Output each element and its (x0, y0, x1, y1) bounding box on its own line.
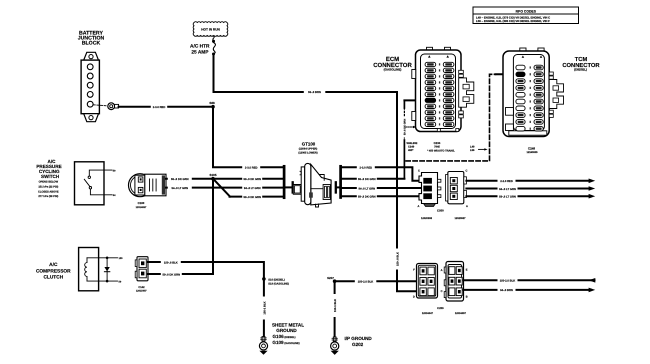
svg-text:150-2.0 BLK: 150-2.0 BLK (358, 281, 373, 284)
svg-text:94-.8 LT GRN: 94-.8 LT GRN (358, 187, 375, 190)
svg-text:59: 59 (429, 99, 433, 103)
svg-text:94-.8 LT GRN: 94-.8 LT GRN (244, 187, 261, 190)
svg-text:2-2.0 RED: 2-2.0 RED (500, 180, 513, 183)
svg-text:C500: C500 (437, 209, 444, 213)
svg-text:12020537: 12020537 (454, 217, 466, 220)
I/P ground symbol G202 (331, 337, 339, 350)
svg-text:C234: C234 (434, 141, 441, 145)
svg-text:CLUTCH: CLUTCH (43, 275, 63, 281)
svg-text:A: A (466, 205, 468, 208)
svg-text:12015407: 12015407 (136, 289, 147, 292)
svg-text:(12064 UPPER): (12064 UPPER) (299, 148, 318, 151)
diagonal from S105 to row 4 (214, 179, 230, 196)
TCM pins (516, 65, 543, 131)
svg-text:L56: L56 (470, 149, 475, 152)
svg-text:59: 59 (519, 72, 523, 76)
svg-text:150: 150 (119, 257, 124, 260)
right collector bar (339, 166, 342, 197)
row 4 wire 59 DK GRN (230, 196, 284, 198)
svg-text:(DIESEL): (DIESEL) (574, 68, 587, 72)
wire bus down from S88, RED feed row 1 (213, 108, 283, 168)
left collector bar (283, 166, 286, 197)
svg-text:94-.8 LT GRN: 94-.8 LT GRN (171, 187, 188, 190)
C500 output wires with arrows (466, 180, 591, 182)
svg-text:GROUND: GROUND (276, 328, 297, 333)
wire S207 down to IP ground (334, 283, 336, 341)
svg-text:59-.8 LT GRN: 59-.8 LT GRN (499, 196, 516, 199)
svg-text:G202: G202 (352, 342, 364, 347)
svg-text:7945: 7945 (434, 146, 440, 149)
battery junction block label (78, 30, 105, 46)
wire 150 BLK from clutch (148, 262, 264, 337)
junction S88 (211, 105, 215, 109)
svg-text:A/C: A/C (49, 262, 58, 268)
svg-text:150-1 BLK: 150-1 BLK (263, 301, 266, 314)
vertical wire label 150-1 BLK (262, 297, 267, 320)
svg-text:2-3.0 RED: 2-3.0 RED (153, 106, 166, 109)
wire row3 LT GRN to C500 pin B (342, 187, 424, 189)
svg-text:OPENS BELOW: OPENS BELOW (39, 181, 59, 184)
svg-text:150-1 BLK: 150-1 BLK (334, 299, 337, 312)
svg-text:S16 (DIESEL): S16 (DIESEL) (268, 279, 285, 282)
svg-text:A/C HTR: A/C HTR (190, 44, 210, 50)
svg-text:12034457: 12034457 (455, 312, 467, 315)
row 2 label (242, 177, 262, 181)
clutch coil (85, 258, 87, 281)
svg-text:2-3.0 RED: 2-3.0 RED (360, 167, 373, 170)
svg-text:HOT IN RUN: HOT IN RUN (201, 28, 220, 32)
svg-text:59-.8 DK GRN: 59-.8 DK GRN (243, 178, 261, 181)
svg-text:C160: C160 (138, 201, 145, 205)
wire 94 LT GRN from C160 to collector (166, 187, 283, 189)
stub into GT100 (285, 186, 292, 188)
svg-text:COMPRESSOR: COMPRESSOR (36, 268, 71, 274)
hot in run box (193, 22, 228, 37)
svg-text:12160905: 12160905 (526, 151, 538, 154)
dashed diesel path to TCM (406, 74, 496, 161)
svg-text:150-.8 BLK: 150-.8 BLK (164, 261, 178, 264)
svg-text:BLOCK: BLOCK (82, 41, 101, 47)
svg-text:(12065 LOWER): (12065 LOWER) (298, 152, 317, 155)
svg-text:450*: 450* (408, 149, 413, 152)
svg-text:59-.8 DK GRN: 59-.8 DK GRN (358, 178, 376, 181)
svg-text:C: C (441, 290, 443, 293)
fuse pigtail (213, 36, 214, 41)
svg-text:S88: S88 (209, 101, 215, 105)
svg-text:L49: L49 (470, 145, 475, 148)
A/C pressure cycling switch box (75, 162, 105, 205)
svg-text:94-.8 LT GRN: 94-.8 LT GRN (499, 188, 516, 191)
svg-text:GT100: GT100 (302, 141, 316, 146)
sheet metal ground symbol G106/G109 (259, 337, 267, 350)
clutch diode (106, 257, 109, 260)
svg-text:I/P GROUND: I/P GROUND (345, 336, 373, 341)
svg-text:C: C (418, 170, 420, 173)
wire into ECM pin 59 (404, 99, 425, 101)
wire row4 DK GRN to C500 pin C (342, 195, 424, 197)
C206 output wires (464, 279, 595, 281)
connector C500 female half (446, 172, 467, 204)
svg-text:150-.8 BLK: 150-.8 BLK (396, 252, 399, 266)
svg-text:C142: C142 (138, 286, 145, 289)
wire battery feed 2-3.0 RED (119, 106, 211, 108)
svg-text:S207: S207 (327, 276, 334, 280)
svg-text:59-.8 DK GRN: 59-.8 DK GRN (163, 273, 181, 276)
battery junction block (81, 52, 99, 121)
svg-text:C: C (466, 170, 468, 173)
wire fuse to ECM 59-.8 BRN (214, 55, 398, 92)
svg-text:59-.8 DK GRN: 59-.8 DK GRN (243, 196, 261, 199)
wire S207 to C206 (336, 280, 417, 282)
svg-text:B: B (466, 296, 468, 299)
svg-text:RPO CODES: RPO CODES (516, 10, 537, 14)
switch contacts (84, 170, 112, 195)
connector C206 female half (444, 262, 463, 302)
junction S16/S19 (262, 277, 266, 281)
junction S105 (211, 177, 215, 181)
fuse A/C HTR 25 AMP (212, 40, 215, 43)
GT100 bulkhead connector (293, 163, 331, 207)
svg-text:150-2.0 BLK: 150-2.0 BLK (500, 280, 515, 283)
right cap and stub (335, 182, 337, 192)
junction S207 (333, 279, 337, 283)
A/C compressor clutch box (79, 248, 99, 291)
svg-text:(GASOLINE): (GASOLINE) (384, 68, 402, 72)
ECM pins (425, 62, 454, 126)
svg-text:12014837: 12014837 (136, 206, 147, 209)
riser to ECM pin 59 (403, 140, 405, 179)
svg-text:12034447: 12034447 (422, 312, 434, 315)
svg-text:277 kPa (38 PSI): 277 kPa (38 PSI) (38, 195, 58, 198)
svg-text:2-3.0 RED: 2-3.0 RED (245, 167, 258, 170)
TCM connector body (503, 48, 564, 137)
A/C pressure cycling switch label (36, 159, 61, 198)
svg-text:151 kPa (22 PSI): 151 kPa (22 PSI) (38, 185, 58, 188)
RPO codes table (473, 7, 579, 24)
svg-text:S105: S105 (209, 173, 216, 177)
svg-text:SWITCH: SWITCH (41, 174, 60, 179)
branch into C206 second pin (397, 281, 417, 291)
svg-text:59-.8 DK GRN: 59-.8 DK GRN (358, 196, 376, 199)
wire row1 RED to C500 pin A (342, 167, 421, 181)
wire 59 DK GRN from clutch up to S105 (148, 181, 213, 275)
svg-text:* 450 W/AUTO TRANS.: * 450 W/AUTO TRANS. (427, 150, 455, 153)
ECM connector body (412, 47, 474, 131)
C500 connector pair (419, 173, 441, 207)
wire row2 DK GRN to ECM riser (342, 178, 405, 180)
svg-text:C249: C249 (408, 146, 415, 149)
svg-text:CLOSES ABOVE: CLOSES ABOVE (38, 190, 59, 193)
ring terminal eyelet (108, 103, 119, 110)
dashed lead from block to ring terminal (93, 105, 107, 106)
connector C142 (135, 257, 148, 281)
connector C160 (129, 174, 167, 197)
svg-text:C248: C248 (528, 146, 536, 150)
svg-text:E: E (466, 269, 468, 272)
wire 150 BLK down from corner (396, 92, 398, 281)
wire into TCM pin 59 (496, 73, 517, 75)
dotted annotation arrow (406, 126, 414, 128)
svg-text:S19 (GASOLINE): S19 (GASOLINE) (268, 283, 289, 286)
svg-text:25 AMP: 25 AMP (191, 49, 209, 55)
connector C206 male half (417, 264, 438, 299)
svg-text:A: A (418, 205, 420, 208)
svg-text:W/4L80E: W/4L80E (407, 142, 418, 145)
row 3 label (242, 185, 262, 189)
wire 59 DK GRN from C160 to S105 and collector (166, 178, 283, 180)
svg-text:L56 – ENGINE, 6.5L (395 CID) V: L56 – ENGINE, 6.5L (395 CID) V8 DIESEL E… (476, 19, 550, 23)
svg-text:A: A (441, 269, 443, 272)
svg-text:D: D (413, 296, 415, 299)
svg-text:C206: C206 (437, 307, 444, 310)
svg-text:SHEET METAL: SHEET METAL (272, 322, 304, 327)
svg-text:84-.8 BRN: 84-.8 BRN (500, 289, 513, 292)
svg-text:59-.8 BRN: 59-.8 BRN (308, 91, 321, 94)
svg-text:12020998: 12020998 (421, 217, 433, 220)
svg-text:59-.8 DK GRN: 59-.8 DK GRN (171, 178, 189, 181)
